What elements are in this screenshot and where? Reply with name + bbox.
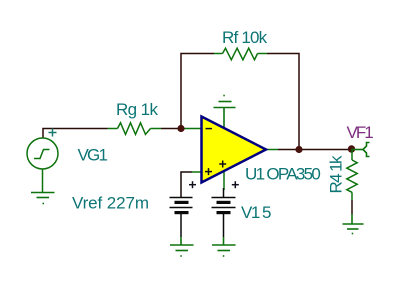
resistor Rf: [214, 48, 267, 60]
ground below VG1: [31, 193, 55, 204]
node VG1 plus polarity mark: [49, 129, 57, 137]
wire feedback right side down to output: [267, 54, 299, 150]
svg-text:U1 OPA350: U1 OPA350: [245, 165, 320, 184]
node output junction dot: [348, 145, 355, 152]
svg-text:R4 1k: R4 1k: [327, 155, 346, 194]
resistor Rg: [108, 123, 162, 135]
svg-text:Rf 10k: Rf 10k: [222, 28, 268, 47]
ground above op-amp (inverted): [214, 96, 236, 130]
op-amp supply plus mark: [219, 161, 226, 168]
ground below Vref battery: [170, 237, 194, 256]
ground below V1 battery: [212, 237, 236, 256]
node Vref plus mark: [189, 181, 196, 188]
voltage generator VG1: [27, 138, 58, 192]
op-amp U1: [202, 117, 267, 183]
svg-text:VF1: VF1: [347, 123, 374, 142]
node feedback junction dot: [295, 146, 302, 153]
wire output rail: [278, 149, 352, 151]
svg-text:Rg 1k: Rg 1k: [116, 100, 159, 119]
wire feedback left vertical and top run: [181, 54, 214, 129]
wire non-inverting input to Vref battery: [181, 172, 192, 197]
node inverting input junction dot: [177, 125, 184, 132]
op-amp plus input mark: [205, 168, 212, 175]
svg-text:Vref 227m: Vref 227m: [72, 194, 149, 213]
pin op-amp inverting input stub: [184, 128, 202, 130]
wire op-amp supply to V1 battery: [223, 188, 225, 197]
battery Vref: [170, 198, 193, 238]
pin op-amp output stub: [266, 149, 278, 151]
svg-text:V1 5: V1 5: [241, 203, 271, 222]
pin op-amp V+ supply stub: [223, 168, 225, 190]
wire R4 to ground: [351, 200, 353, 214]
wire Rg to inverting node: [161, 128, 181, 130]
battery V1: [212, 198, 236, 238]
node V1 plus mark: [232, 181, 239, 188]
resistor R4: [347, 150, 357, 201]
svg-text:VG1: VG1: [78, 146, 108, 165]
probe VF1: [352, 143, 370, 157]
op-amp minus input mark: [206, 128, 213, 130]
ground below R4: [343, 214, 364, 234]
pin op-amp non-inverting stub: [192, 171, 202, 173]
wire VG1 top to Rg (input rail): [43, 129, 108, 139]
